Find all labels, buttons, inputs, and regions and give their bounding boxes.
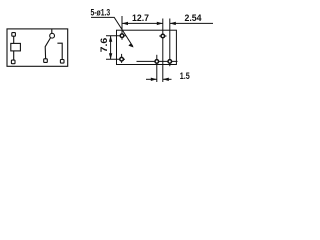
svg-text:2.54: 2.54 xyxy=(185,13,203,24)
svg-text:5-ø1.3: 5-ø1.3 xyxy=(91,8,111,19)
svg-text:1.5: 1.5 xyxy=(180,71,191,82)
svg-text:12.7: 12.7 xyxy=(132,13,149,24)
svg-text:7.6: 7.6 xyxy=(99,38,110,53)
